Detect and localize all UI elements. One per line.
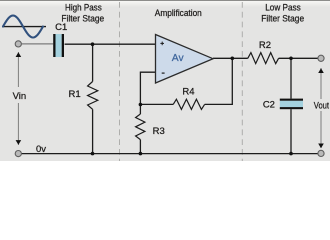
svg-text:Filter Stage: Filter Stage <box>261 14 304 25</box>
svg-text:Filter Stage: Filter Stage <box>61 14 104 25</box>
svg-text:0v: 0v <box>36 144 46 155</box>
svg-text:R4: R4 <box>182 87 194 98</box>
svg-text:Low Pass: Low Pass <box>265 3 301 14</box>
svg-text:R3: R3 <box>153 126 165 137</box>
svg-text:R2: R2 <box>259 40 271 51</box>
svg-text:C1: C1 <box>55 22 67 33</box>
svg-text:Av: Av <box>172 53 185 64</box>
svg-text:High Pass: High Pass <box>65 3 102 14</box>
svg-text:C2: C2 <box>263 99 275 110</box>
svg-text:Vin: Vin <box>13 91 27 102</box>
svg-text:Vout: Vout <box>314 101 329 112</box>
svg-text:R1: R1 <box>69 89 81 100</box>
svg-text:Amplification: Amplification <box>155 8 202 19</box>
